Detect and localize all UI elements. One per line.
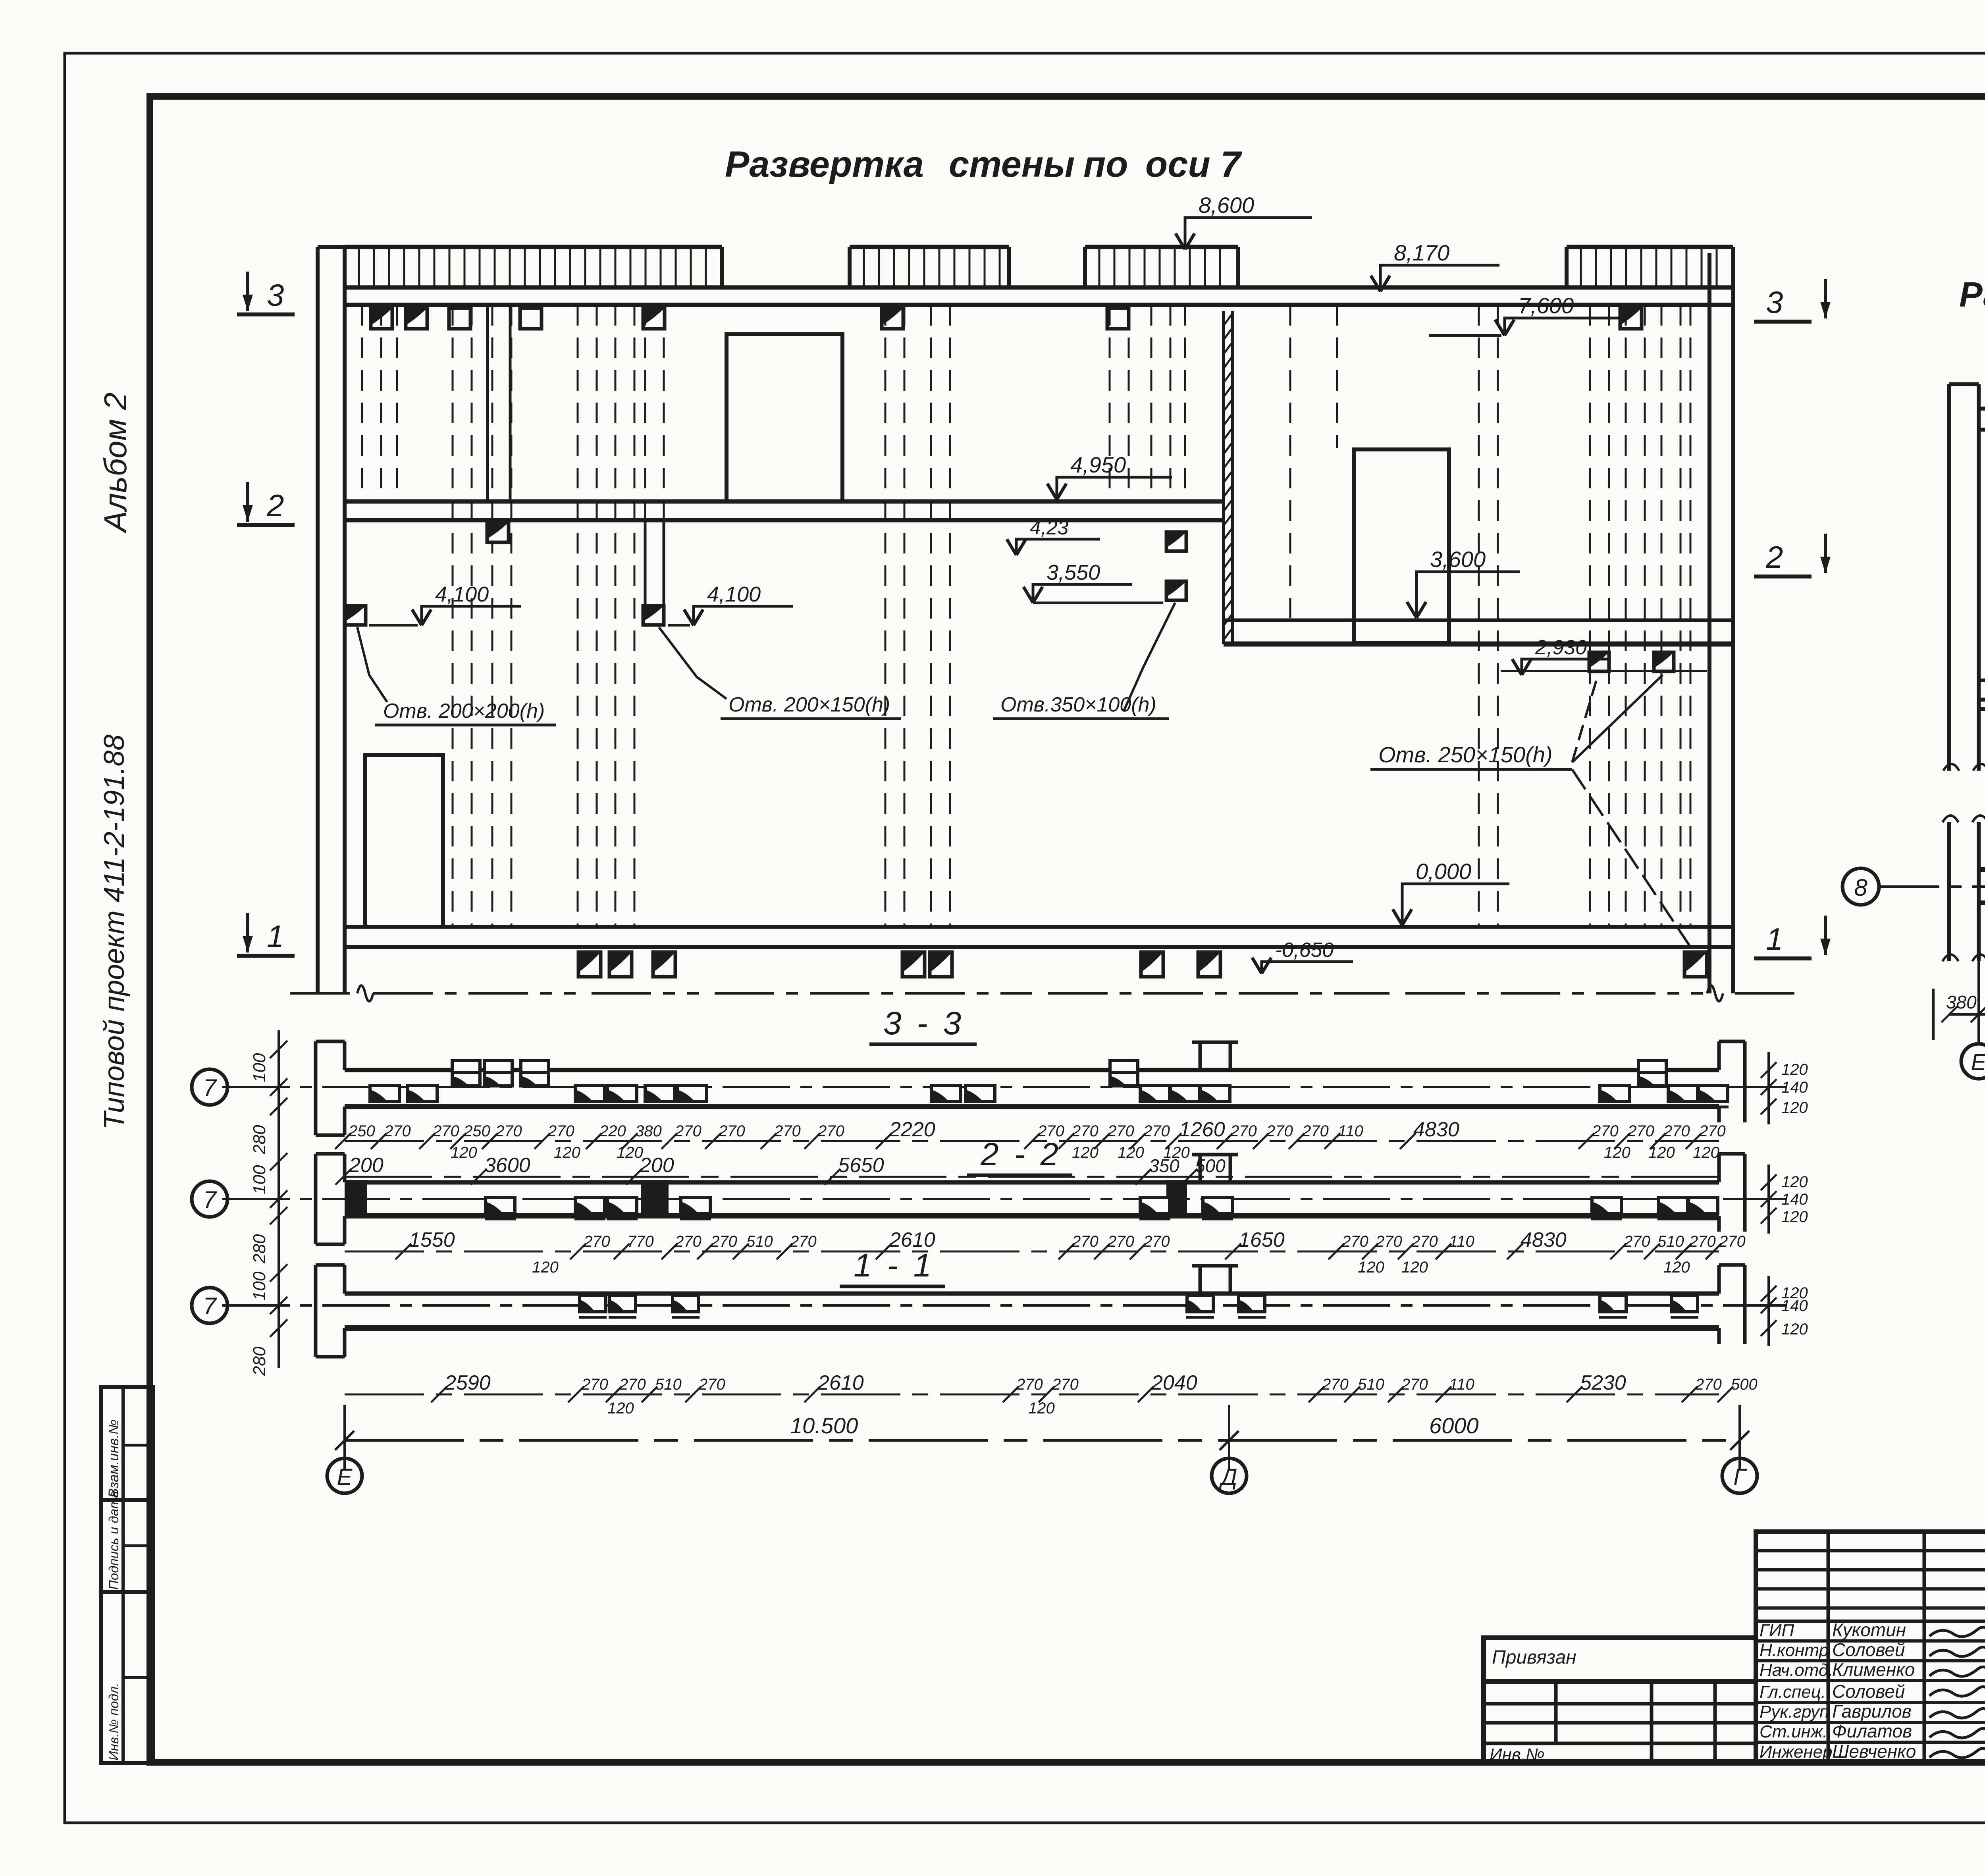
svg-text:270: 270 <box>1143 1233 1170 1250</box>
svg-text:120: 120 <box>1028 1400 1055 1417</box>
svg-text:7,600: 7,600 <box>1518 293 1574 318</box>
svg-text:4,23: 4,23 <box>1030 517 1069 539</box>
svg-text:120: 120 <box>1781 1208 1808 1226</box>
svg-text:270: 270 <box>583 1233 610 1250</box>
roof slab 8.170 double line <box>345 285 1733 290</box>
svg-text:200: 200 <box>639 1154 674 1177</box>
svg-text:270: 270 <box>1266 1122 1293 1140</box>
svg-text:110: 110 <box>1338 1122 1363 1140</box>
4.950 mark <box>1047 484 1066 499</box>
svg-text:2590: 2590 <box>444 1371 491 1394</box>
svg-text:Филатов: Филатов <box>1832 1721 1912 1741</box>
svg-text:Гаврилов: Гаврилов <box>1832 1701 1912 1722</box>
svg-text:270: 270 <box>675 1233 701 1250</box>
svg-text:770: 770 <box>627 1233 654 1250</box>
svg-text:Шевченко: Шевченко <box>1832 1741 1916 1762</box>
vent squares below floor <box>578 952 601 977</box>
svg-text:270: 270 <box>1072 1233 1098 1250</box>
overall dims 10.500 / 6000 <box>345 1439 1740 1442</box>
svg-text:3: 3 <box>267 278 284 312</box>
svg-text:2220: 2220 <box>889 1118 935 1141</box>
svg-text:Соловей: Соловей <box>1832 1639 1905 1660</box>
svg-text:2610: 2610 <box>817 1371 864 1394</box>
svg-text:8: 8 <box>1854 874 1867 901</box>
svg-text:270: 270 <box>1627 1122 1654 1140</box>
svg-text:270: 270 <box>1302 1122 1329 1140</box>
svg-text:1: 1 <box>1766 922 1783 956</box>
parapet blocks on roof <box>345 245 722 249</box>
svg-text:оси 7: оси 7 <box>1145 144 1242 185</box>
floor 0.000 double line <box>345 925 1733 929</box>
svg-text:270: 270 <box>1699 1122 1726 1140</box>
svg-text:3,550: 3,550 <box>1046 561 1100 584</box>
0.000 mark <box>1393 909 1412 925</box>
plan wall strip <box>1979 867 1985 872</box>
svg-text:Привязан: Привязан <box>1492 1647 1576 1668</box>
svg-text:Кукотин: Кукотин <box>1832 1620 1906 1640</box>
svg-text:по: по <box>1083 144 1128 185</box>
svg-text:270: 270 <box>698 1376 725 1393</box>
2-2 dim row <box>345 1251 1719 1253</box>
svg-text:270: 270 <box>1663 1122 1690 1140</box>
svg-text:5230: 5230 <box>1580 1371 1626 1394</box>
svg-text:270: 270 <box>1143 1122 1170 1140</box>
svg-text:500: 500 <box>1731 1376 1758 1393</box>
svg-text:270: 270 <box>1016 1376 1043 1393</box>
svg-text:140: 140 <box>1781 1297 1808 1315</box>
svg-text:3,600: 3,600 <box>1430 547 1486 572</box>
svg-text:Развертка стены по оси 8: Развертка стены по оси 8 <box>1959 275 1985 314</box>
svg-text:280: 280 <box>250 1346 269 1376</box>
svg-text:8,170: 8,170 <box>1394 240 1449 265</box>
svg-text:Гл.спец.: Гл.спец. <box>1760 1682 1826 1702</box>
4.23 mark <box>1007 539 1026 555</box>
svg-text:3: 3 <box>1766 285 1783 320</box>
left attachment table <box>1484 1638 1756 1762</box>
comb of channel lines inside parapet blocks <box>358 247 360 287</box>
svg-text:0,000: 0,000 <box>1416 859 1471 884</box>
svg-text:270: 270 <box>581 1376 608 1393</box>
svg-text:4830: 4830 <box>1521 1228 1567 1251</box>
door opening (upper floor, left) <box>727 334 842 501</box>
svg-text:100: 100 <box>250 1271 269 1301</box>
svg-text:Г: Г <box>1733 1464 1748 1490</box>
3-3 dim row <box>345 1140 1719 1142</box>
svg-text:120: 120 <box>1648 1144 1675 1161</box>
axis8 bottom axis circles E and D <box>1977 961 1980 1044</box>
svg-text:Н.контр: Н.контр <box>1760 1641 1829 1660</box>
svg-text:Рук.груп: Рук.груп <box>1760 1702 1829 1722</box>
svg-text:280: 280 <box>250 1234 269 1264</box>
svg-text:7: 7 <box>203 1074 217 1101</box>
svg-text:270: 270 <box>495 1122 522 1140</box>
svg-text:270: 270 <box>1411 1233 1438 1250</box>
axis8 left pier <box>1947 384 1951 771</box>
lower slab (3.600) right part <box>1224 619 1733 622</box>
svg-text:Д: Д <box>1219 1464 1237 1490</box>
svg-text:140: 140 <box>1781 1191 1808 1208</box>
-0.650 mark <box>1252 958 1271 974</box>
svg-text:120: 120 <box>1118 1144 1144 1161</box>
svg-text:270: 270 <box>710 1233 737 1250</box>
3.600 mark <box>1407 602 1426 618</box>
svg-text:120: 120 <box>1781 1173 1808 1191</box>
svg-text:Е: Е <box>1971 1049 1985 1075</box>
svg-text:100: 100 <box>250 1053 269 1082</box>
svg-text:Соловей: Соловей <box>1832 1681 1905 1702</box>
svg-text:3600: 3600 <box>484 1154 530 1177</box>
8.170 mark <box>1371 276 1390 291</box>
svg-text:270: 270 <box>1689 1233 1716 1250</box>
svg-text:Нач.отд.: Нач.отд. <box>1760 1660 1833 1680</box>
svg-text:2 - 2: 2 - 2 <box>980 1136 1062 1172</box>
svg-text:270: 270 <box>1107 1233 1134 1250</box>
svg-text:стены: стены <box>949 144 1075 185</box>
svg-text:5650: 5650 <box>838 1154 884 1177</box>
square below middle slab <box>487 523 509 542</box>
2-2 black wall fills <box>345 1180 367 1217</box>
ground chain line <box>290 992 357 995</box>
svg-text:270: 270 <box>1592 1122 1619 1140</box>
2.930 mark <box>1512 659 1531 675</box>
svg-text:270: 270 <box>790 1233 817 1250</box>
svg-text:110: 110 <box>1449 1233 1474 1250</box>
2.930 level line right <box>1501 670 1707 672</box>
svg-text:Подпись и дата: Подпись и дата <box>106 1490 121 1590</box>
svg-text:Отв. 250×150(h): Отв. 250×150(h) <box>1378 742 1553 767</box>
svg-text:270: 270 <box>718 1122 745 1140</box>
svg-text:120: 120 <box>1663 1259 1690 1276</box>
svg-text:6000: 6000 <box>1429 1413 1479 1438</box>
svg-text:4,100: 4,100 <box>707 582 761 606</box>
svg-text:200: 200 <box>349 1154 384 1177</box>
svg-text:120: 120 <box>617 1144 643 1161</box>
axis8 lower plan section pier <box>1947 822 1951 961</box>
svg-text:-0,650: -0,650 <box>1275 939 1334 962</box>
svg-text:270: 270 <box>1623 1233 1650 1250</box>
svg-text:1 - 1: 1 - 1 <box>854 1247 935 1284</box>
svg-text:120: 120 <box>1781 1099 1808 1116</box>
svg-text:Инженер: Инженер <box>1760 1742 1833 1762</box>
svg-text:110: 110 <box>1449 1376 1474 1393</box>
svg-text:270: 270 <box>619 1376 646 1393</box>
svg-text:Ст.инж.: Ст.инж. <box>1760 1722 1827 1741</box>
svg-text:270: 270 <box>1072 1122 1098 1140</box>
svg-text:350: 350 <box>1149 1155 1179 1176</box>
3-3 vent squares <box>370 1085 399 1101</box>
svg-text:270: 270 <box>774 1122 801 1140</box>
svg-text:270: 270 <box>1695 1376 1722 1393</box>
svg-text:250: 250 <box>348 1122 375 1140</box>
axis8 pier break bottom <box>1943 764 1985 771</box>
svg-text:ГИП: ГИП <box>1760 1621 1794 1640</box>
2-2 upper dim row (200 3600 200 5650 350 500) <box>345 1176 1719 1178</box>
svg-text:1650: 1650 <box>1239 1228 1285 1251</box>
svg-text:8,600: 8,600 <box>1199 193 1254 218</box>
svg-text:270: 270 <box>675 1122 701 1140</box>
svg-text:380: 380 <box>635 1122 662 1140</box>
svg-text:120: 120 <box>1693 1144 1719 1161</box>
4.100 mark mid <box>684 609 703 625</box>
svg-text:510: 510 <box>1657 1233 1684 1250</box>
svg-text:270: 270 <box>1322 1376 1349 1393</box>
bottom axis circles Е Д Г <box>327 1458 362 1493</box>
2.930 vent squares right <box>1589 652 1609 671</box>
svg-text:270: 270 <box>817 1122 844 1140</box>
svg-text:100: 100 <box>250 1165 269 1194</box>
svg-text:2: 2 <box>266 488 284 523</box>
left margin bottom table <box>101 1387 153 1763</box>
plan axis chain line with circle 8 <box>1880 885 1985 888</box>
svg-text:120: 120 <box>607 1400 634 1417</box>
svg-text:270: 270 <box>432 1122 459 1140</box>
svg-text:Инв.№: Инв.№ <box>1490 1745 1545 1764</box>
svg-text:Инв.№ подл.: Инв.№ подл. <box>106 1683 121 1760</box>
svg-text:4,950: 4,950 <box>1070 452 1126 477</box>
hatched dividing wall <box>1222 311 1225 644</box>
svg-text:510: 510 <box>1358 1376 1384 1393</box>
svg-text:2: 2 <box>1765 540 1783 575</box>
4.100 mark left <box>412 609 431 625</box>
svg-text:3 - 3: 3 - 3 <box>883 1005 964 1041</box>
left column (axis E pier) <box>316 247 320 993</box>
svg-text:Отв. 200×200(h): Отв. 200×200(h) <box>383 700 545 723</box>
svg-text:120: 120 <box>1358 1259 1384 1276</box>
3.550 mark <box>1023 587 1043 603</box>
svg-text:4,100: 4,100 <box>435 582 489 606</box>
svg-text:380: 380 <box>1946 992 1977 1012</box>
svg-text:510: 510 <box>655 1376 682 1393</box>
svg-text:7: 7 <box>203 1186 217 1213</box>
svg-text:Е: Е <box>337 1464 353 1490</box>
svg-text:270: 270 <box>1401 1376 1428 1393</box>
svg-text:2040: 2040 <box>1151 1371 1197 1394</box>
svg-text:120: 120 <box>451 1144 477 1161</box>
svg-text:120: 120 <box>554 1144 580 1161</box>
1-1 vent squares <box>580 1295 606 1312</box>
svg-text:270: 270 <box>547 1122 574 1140</box>
svg-text:120: 120 <box>1401 1259 1428 1276</box>
svg-text:Альбом 2: Альбом 2 <box>98 392 133 534</box>
axis8 4.950 slab <box>1979 679 1985 682</box>
svg-text:Типовой проект 411-2-191.88: Типовой проект 411-2-191.88 <box>98 735 130 1130</box>
door opening (ground floor, left) <box>365 755 443 927</box>
svg-text:270: 270 <box>1341 1233 1368 1250</box>
middle slab (4.950) left part <box>345 499 1224 504</box>
1-1 dim row <box>345 1394 1719 1396</box>
svg-text:120: 120 <box>532 1259 559 1276</box>
svg-text:Развертка: Развертка <box>725 144 924 185</box>
svg-text:270: 270 <box>384 1122 411 1140</box>
vent squares below roof slab <box>371 308 392 329</box>
svg-text:120: 120 <box>1072 1144 1098 1161</box>
2-2 vent squares <box>486 1197 515 1213</box>
svg-text:7: 7 <box>203 1293 217 1319</box>
svg-text:270: 270 <box>1375 1233 1402 1250</box>
svg-text:2,930: 2,930 <box>1535 636 1587 659</box>
svg-text:270: 270 <box>1107 1122 1134 1140</box>
svg-text:10.500: 10.500 <box>790 1413 858 1438</box>
svg-text:120: 120 <box>1604 1144 1630 1161</box>
door opening (upper floor, right) <box>1354 449 1449 643</box>
svg-text:Отв. 200×150(h): Отв. 200×150(h) <box>728 693 890 716</box>
svg-text:4830: 4830 <box>1413 1118 1459 1141</box>
svg-text:270: 270 <box>1052 1376 1079 1393</box>
vertical dashed channel pairs in wall <box>361 305 363 501</box>
svg-text:1260: 1260 <box>1179 1118 1225 1141</box>
svg-text:120: 120 <box>1781 1061 1808 1078</box>
svg-text:Отв.350×100(h): Отв.350×100(h) <box>1000 693 1156 716</box>
svg-text:510: 510 <box>746 1233 773 1250</box>
svg-text:280: 280 <box>250 1125 269 1155</box>
svg-text:220: 220 <box>599 1122 626 1140</box>
8.600 mark <box>1176 233 1195 249</box>
axis8 roof slab <box>1979 407 1985 411</box>
svg-text:120: 120 <box>1781 1321 1808 1338</box>
svg-text:Взам.инв.№: Взам.инв.№ <box>106 1419 121 1498</box>
svg-text:140: 140 <box>1781 1079 1808 1096</box>
svg-text:270: 270 <box>1230 1122 1257 1140</box>
svg-text:1550: 1550 <box>409 1228 455 1251</box>
7.600 mark <box>1495 320 1514 335</box>
channel dashed above, solid below (mid-left) <box>644 305 646 520</box>
svg-text:Клименко: Клименко <box>1832 1659 1915 1680</box>
svg-text:1: 1 <box>267 919 284 954</box>
squares at 4.100 level <box>345 606 366 625</box>
svg-text:250: 250 <box>463 1122 490 1140</box>
axis8 bottom dims 380 1000 270 270 120 <box>1932 989 1935 1040</box>
squares at 4.23 / 3.550 levels <box>1166 532 1186 551</box>
svg-text:270: 270 <box>1719 1233 1746 1250</box>
right wall (axis Г pier) <box>1707 253 1711 993</box>
